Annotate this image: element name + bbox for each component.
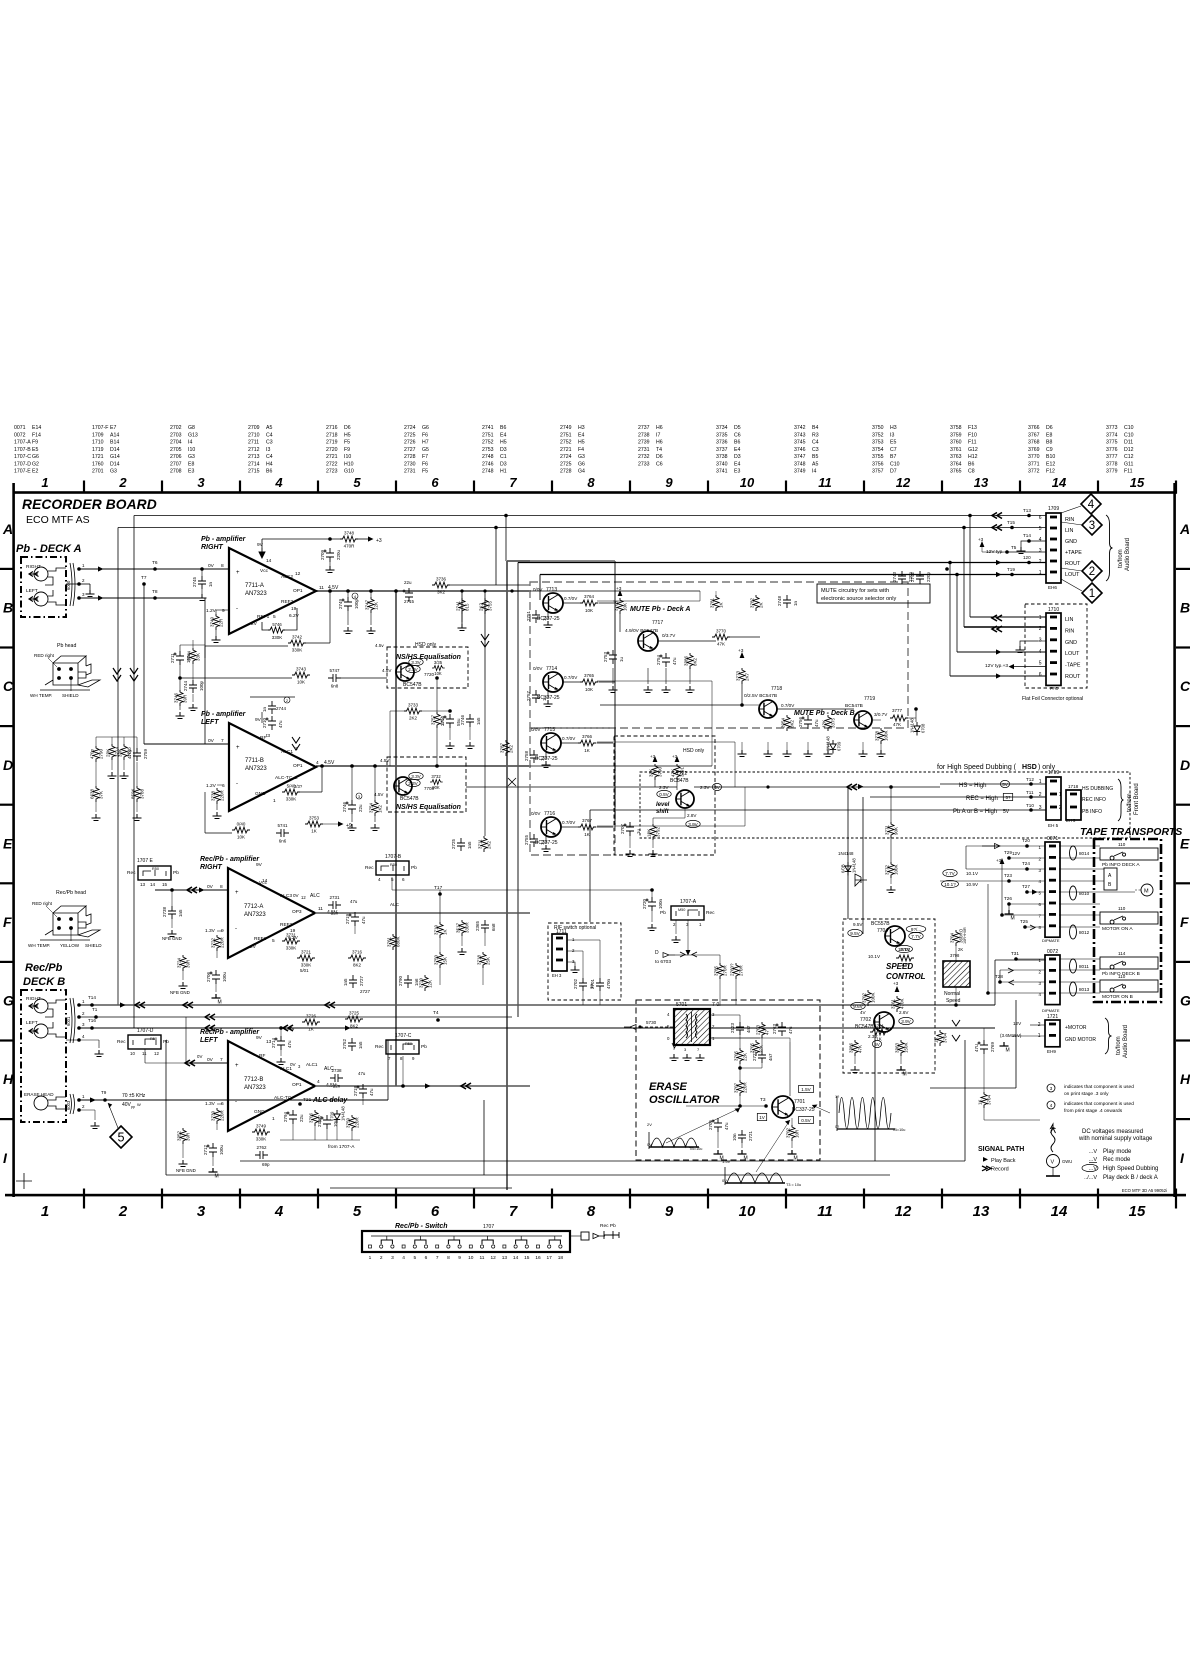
svg-text:10.1V: 10.1V [966, 871, 979, 876]
wire vertical record left [517, 563, 519, 1018]
svg-text:2.3V: 2.3V [408, 781, 418, 786]
svg-text:T20: T20 [1022, 838, 1030, 843]
record chevrons 1709 RIN [992, 513, 1002, 519]
wire [204, 818, 206, 833]
wire [739, 1015, 741, 1022]
wire 3743 row [180, 677, 292, 679]
svg-text:E: E [3, 835, 13, 851]
svg-text:Rec/Pb head: Rec/Pb head [56, 890, 86, 896]
svg-text:13: 13 [140, 882, 146, 887]
svg-text:14: 14 [1051, 1203, 1068, 1220]
wire pin2 down [89, 584, 91, 590]
svg-text:+3: +3 [996, 858, 1002, 863]
switch 1707-E contacts [143, 870, 166, 876]
wire to 0072 pin1 [995, 959, 1046, 961]
svg-text:1719: 1719 [92, 447, 104, 453]
svg-text:1707-A: 1707-A [680, 899, 697, 905]
svg-text:C: C [1180, 678, 1190, 694]
svg-text:3771: 3771 [885, 824, 890, 835]
resistor 3782 2K [753, 595, 759, 611]
svg-text:10.1V: 10.1V [868, 954, 881, 959]
svg-text:ALC2: ALC2 [281, 574, 293, 580]
svg-text:F4: F4 [578, 447, 584, 453]
svg-text:1707-C: 1707-C [14, 454, 31, 460]
capacitor 2769 47u [978, 1040, 989, 1054]
svg-text:3770: 3770 [1028, 454, 1040, 460]
svg-text:4: 4 [316, 760, 319, 766]
legend rec underline [1089, 1162, 1097, 1164]
deck B erase pin 2 [77, 1108, 81, 1112]
svg-text:3/0.7V: 3/0.7V [874, 712, 888, 717]
svg-text:F: F [3, 914, 12, 930]
resistor 2741 815 [459, 598, 465, 614]
chevron down pair [481, 634, 489, 647]
junction [279, 1026, 283, 1030]
connector 0072 pin 4 [1049, 992, 1056, 995]
wire [684, 808, 686, 818]
svg-text:Audio Board: Audio Board [1123, 1025, 1129, 1058]
wire 1710 gnd [1038, 640, 1046, 642]
wire 7713 collector [563, 602, 580, 604]
grid row tick right [1176, 646, 1190, 648]
svg-text:T26: T26 [1004, 896, 1012, 901]
grid tick top [551, 481, 553, 494]
svg-text:2: 2 [1059, 805, 1062, 811]
svg-text:4: 4 [274, 1203, 284, 1220]
ground 2712 [209, 1168, 218, 1172]
svg-text:1K: 1K [311, 829, 317, 834]
resistor 3363 150K [898, 1040, 904, 1056]
frame bottom rule [5, 1194, 1186, 1197]
svg-text:12: 12 [895, 1203, 912, 1220]
NS/HS equalisation enclosure 2 [387, 757, 466, 812]
svg-text:3735: 3735 [716, 432, 728, 438]
resistor 3770 47K [712, 634, 730, 640]
svg-text:ALC1: ALC1 [281, 749, 293, 755]
svg-text:F7: F7 [422, 454, 428, 460]
resistor 3736 [432, 582, 450, 588]
svg-text:H: H [3, 1071, 14, 1087]
svg-text:0.7/0V: 0.7/0V [781, 703, 795, 708]
wire 1711 p1 [567, 939, 600, 941]
switch symbol MOTOR ON A [1110, 916, 1126, 924]
transistor 7702 BC547B [874, 1012, 894, 1032]
grid row tick right [1176, 882, 1190, 884]
svg-text:47K: 47K [858, 1045, 863, 1053]
wire [95, 802, 97, 812]
svg-text:2721: 2721 [326, 454, 338, 460]
svg-text:6: 6 [1039, 515, 1042, 521]
svg-text:3705: 3705 [734, 1050, 739, 1061]
ground mute A [609, 686, 618, 693]
wire [676, 780, 678, 790]
wire to NSHS box [341, 677, 387, 679]
svg-text:9: 9 [458, 1255, 461, 1261]
A/B selector box [1104, 868, 1117, 890]
capacitor 2709 220u [324, 548, 335, 562]
svg-text:3741: 3741 [716, 469, 728, 475]
resistor 3725 8K2 [345, 1016, 363, 1022]
resistor 3767 1K [578, 824, 596, 830]
svg-text:2719: 2719 [345, 913, 350, 924]
svg-text:10.1?: 10.1? [944, 882, 956, 887]
svg-text:114: 114 [1118, 951, 1126, 956]
svg-text:C6: C6 [656, 461, 663, 467]
svg-text:11: 11 [480, 1255, 485, 1261]
svg-text:2702: 2702 [170, 425, 182, 431]
svg-text:V: V [1051, 1160, 1055, 1166]
wire [95, 762, 97, 786]
svg-text:A: A [1179, 521, 1190, 537]
switch symbol MOTOR ON B [1110, 984, 1126, 992]
wire level shift out [694, 786, 940, 788]
svg-text:1n5: 1n5 [476, 717, 481, 725]
op-amp 7711-A Pb amplifier right [229, 548, 316, 634]
svg-text:GND MOTOR: GND MOTOR [1065, 1037, 1096, 1043]
+3 arrow mute A [618, 590, 623, 596]
wire 0072 to transport [1059, 958, 1100, 960]
connector 1710 pin 1 [1050, 616, 1057, 619]
svg-text:1: 1 [1039, 779, 1042, 785]
svg-text:1N4148: 1N4148 [852, 858, 857, 873]
wire T13 line [134, 515, 1046, 517]
svg-text:11: 11 [818, 475, 832, 490]
svg-text:2703: 2703 [170, 432, 182, 438]
voltage [942, 880, 959, 887]
ground 3754 [371, 824, 380, 831]
deck A connector oval [70, 563, 75, 606]
wire 0071 to transport [1059, 868, 1104, 870]
wire [599, 940, 601, 978]
svg-text:Front Board: Front Board [1134, 783, 1140, 815]
svg-text:T3 = 10u: T3 = 10u [786, 1183, 801, 1187]
svg-text:H3: H3 [578, 425, 585, 431]
switch 1707 contact 18 [559, 1245, 562, 1248]
svg-text:8K2: 8K2 [353, 963, 362, 968]
wire 1710 RIN [964, 626, 1046, 628]
resistor 3788 8K9 [134, 786, 140, 802]
wire 1707-A wiper [687, 920, 689, 955]
svg-text:1u: 1u [542, 695, 547, 701]
svg-text:18K: 18K [647, 829, 652, 837]
resistor 3703 47 [759, 1022, 765, 1038]
resistor 3771 90K [888, 822, 894, 838]
capacitor 2744b 100p [189, 680, 197, 693]
svg-text:E3: E3 [734, 469, 740, 475]
wire recpb left output [315, 1085, 530, 1087]
svg-text:Pb head: Pb head [57, 643, 76, 649]
wire [629, 836, 631, 848]
svg-text:H4: H4 [266, 461, 273, 467]
node [310, 675, 328, 678]
wire HS=High [940, 783, 1031, 785]
svg-text:Rec: Rec [127, 870, 136, 876]
deck A right head arrows [29, 572, 39, 577]
resistor 3787 2K2 [503, 740, 509, 756]
svg-text:G8: G8 [188, 425, 195, 431]
svg-text:1u: 1u [542, 615, 547, 621]
connector 1710 pin 6 [1050, 673, 1057, 676]
ground 2738 [168, 930, 177, 937]
wire base feed mute B [600, 704, 742, 706]
svg-text:2757: 2757 [526, 690, 531, 701]
svg-text:47u: 47u [369, 1088, 374, 1096]
svg-text:2746: 2746 [482, 461, 494, 467]
wire T7 vertical [143, 584, 145, 744]
svg-text:F11: F11 [968, 440, 977, 446]
svg-text:EH 5: EH 5 [1048, 823, 1059, 828]
svg-text:1718: 1718 [1068, 784, 1079, 789]
wire inner box right [1015, 1000, 1017, 1088]
node [419, 718, 437, 728]
svg-text:2123: 2123 [730, 1022, 735, 1033]
junction [373, 764, 377, 768]
junction T14b [90, 1003, 94, 1007]
svg-text:GND: GND [255, 791, 266, 797]
transistor 7715 BC337-25 [541, 733, 561, 753]
resistor 3704c 1K [981, 1092, 987, 1108]
resistor 3773 2K7 [739, 668, 745, 684]
capacitor 5741 6n6 [276, 829, 289, 837]
boxed voltage [757, 1113, 766, 1120]
svg-text:EH6: EH6 [1048, 585, 1057, 590]
transistor 7713 BC337-25 [543, 593, 563, 613]
svg-text:-TAPE: -TAPE [1065, 663, 1081, 669]
wire REC=High [870, 796, 1046, 798]
svg-text:3702: 3702 [862, 992, 867, 1003]
svg-text:4: 4 [1039, 649, 1042, 655]
svg-text:3758: 3758 [950, 425, 962, 431]
svg-text:T5: T5 [1011, 545, 1017, 550]
svg-text:5747: 5747 [329, 668, 340, 673]
leader diamond 5 [108, 1103, 118, 1128]
ground 1711 [571, 966, 580, 973]
grid tick bottom [395, 1189, 397, 1209]
svg-text:110: 110 [1118, 906, 1126, 911]
capacitor 2718 47u [357, 1084, 368, 1098]
+3 arrow 3790 [653, 756, 658, 762]
ground 2741 [458, 624, 467, 631]
svg-text:6/0B: 6/0B [841, 864, 846, 873]
switch 1707-B contacts [381, 865, 404, 871]
svg-text:G5: G5 [422, 447, 429, 453]
legend gnd bar [1046, 1175, 1060, 1177]
svg-text:2731: 2731 [329, 895, 340, 900]
svg-text:SIGNAL PATH: SIGNAL PATH [978, 1146, 1024, 1153]
svg-text:4: 4 [1039, 537, 1042, 543]
wire 12V to +TAPE [982, 551, 1007, 553]
svg-text:3704: 3704 [950, 932, 955, 943]
svg-text:F6: F6 [422, 461, 428, 467]
svg-text:9: 9 [222, 608, 225, 614]
junction T26 [1007, 902, 1011, 906]
svg-text:G3: G3 [578, 454, 585, 460]
wire [94, 1110, 96, 1120]
svg-text:7704: 7704 [877, 928, 888, 934]
skip [639, 772, 641, 838]
ferrite bead 8011 [1070, 959, 1077, 973]
junction dot [328, 589, 331, 592]
connector 1711 [552, 934, 567, 971]
svg-text:3725: 3725 [349, 1011, 360, 1016]
wire [329, 591, 331, 643]
junction [954, 1003, 958, 1007]
svg-text:100K: 100K [894, 864, 899, 875]
resistor 3743 [292, 672, 310, 678]
legend V circle [1047, 1155, 1060, 1168]
wire [292, 1124, 294, 1140]
svg-text:1707-C: 1707-C [395, 1033, 412, 1039]
gnd stub 1711 [567, 962, 575, 966]
ground 1721 [1000, 1042, 1009, 1046]
grid tick top [707, 481, 709, 494]
svg-text:0V: 0V [208, 563, 215, 569]
svg-text:3: 3 [1089, 520, 1095, 532]
wire gnd drop [689, 668, 691, 684]
grid tick top [1019, 481, 1021, 494]
switch 1707 contact 17 [548, 1245, 551, 1248]
wire PbAorB=High [590, 809, 1046, 811]
junction [328, 589, 332, 593]
svg-text:1: 1 [1039, 570, 1042, 576]
junction dot [766, 785, 769, 788]
svg-text:33K: 33K [196, 653, 201, 661]
svg-text:0.7/0V: 0.7/0V [564, 675, 578, 680]
svg-text:100u: 100u [219, 1144, 224, 1155]
svg-text:B5: B5 [812, 454, 818, 460]
svg-text:ERASE HEAD: ERASE HEAD [24, 1092, 54, 1097]
resistor 3777 47K h [890, 715, 908, 721]
svg-text:3779: 3779 [1106, 469, 1118, 475]
svg-text:6n8: 6n8 [331, 684, 339, 689]
svg-text:69p: 69p [262, 1162, 270, 1167]
svg-text:A: A [2, 521, 13, 537]
svg-text:2K2: 2K2 [509, 744, 514, 753]
wire [192, 694, 194, 702]
svg-text:ERASE: ERASE [649, 1081, 688, 1093]
resistor 3748 [340, 536, 358, 542]
wire to +3 [358, 538, 372, 540]
ground 3772 [887, 886, 896, 893]
svg-text:shift: shift [656, 809, 670, 815]
svg-text:T13: T13 [1023, 508, 1031, 513]
svg-text:C10: C10 [1124, 425, 1134, 431]
svg-text:8: 8 [587, 1203, 596, 1220]
ground cluster left 2 [133, 814, 142, 821]
resistor 3701 1K [870, 1029, 888, 1035]
chevron down marks [113, 668, 138, 681]
svg-text:M: M [215, 1174, 219, 1180]
svg-text:D3: D3 [500, 447, 507, 453]
svg-text:7712-A: 7712-A [244, 904, 263, 910]
svg-text:47K: 47K [671, 769, 676, 777]
svg-text:3778: 3778 [875, 730, 880, 741]
svg-text:6.2V: 6.2V [289, 613, 300, 619]
svg-text:NS/HS Equalisation: NS/HS Equalisation [396, 804, 461, 811]
svg-text:2746: 2746 [460, 714, 465, 725]
junction dot [320, 764, 323, 767]
svg-text:1.5V: 1.5V [801, 1087, 811, 1092]
svg-text:3750: 3750 [434, 954, 439, 965]
svg-text:3766: 3766 [1028, 425, 1040, 431]
svg-text:220p: 220p [926, 571, 931, 582]
arrow left tape [1009, 664, 1015, 669]
grid tick top [83, 481, 85, 494]
svg-text:18: 18 [558, 1255, 564, 1261]
switch drive square [581, 1232, 589, 1240]
svg-text:2732: 2732 [638, 454, 650, 460]
junction T29 [1007, 856, 1011, 860]
svg-text:2751: 2751 [526, 610, 531, 621]
svg-text:8: 8 [587, 475, 595, 490]
svg-text:+3: +3 [893, 981, 899, 986]
svg-text:LOUT: LOUT [1065, 651, 1080, 657]
resistor 3792 18K [650, 824, 656, 840]
wire 3740 row [205, 832, 232, 834]
svg-text:OP3: OP3 [292, 909, 302, 915]
arrow down pair speed [952, 1020, 960, 1041]
connector 1719 pin 3 [1050, 806, 1057, 809]
arrow left erase [90, 1097, 96, 1102]
leader diamond3 [1061, 522, 1082, 525]
wire to deck B mute [730, 636, 760, 638]
svg-text:Rec/Pb - amplifier: Rec/Pb - amplifier [200, 856, 260, 863]
svg-text:3753: 3753 [309, 816, 320, 821]
diode 6709 1N4148 [830, 740, 836, 754]
svg-text:E5: E5 [890, 440, 896, 446]
svg-text:M: M [1006, 1048, 1010, 1054]
connector 1710 pin 5 [1050, 661, 1057, 664]
wire T17 down [439, 894, 441, 922]
node [228, 792, 230, 818]
svg-text:3747: 3747 [794, 454, 806, 460]
junction T13 [1027, 514, 1031, 518]
connector 0071 pin 8 [1049, 924, 1056, 927]
svg-text:T25: T25 [1020, 919, 1028, 924]
ground 3738 [213, 812, 222, 819]
wire [740, 1067, 762, 1069]
svg-text:YELLOW: YELLOW [60, 943, 80, 948]
svg-text:15: 15 [1129, 1203, 1146, 1220]
svg-text:3517: 3517 [456, 922, 461, 933]
ground 3747 [367, 627, 376, 634]
svg-text:4.5V: 4.5V [324, 760, 335, 766]
wire [717, 1132, 719, 1148]
svg-text:D6: D6 [656, 454, 663, 460]
junction T12 [1029, 782, 1033, 786]
svg-text:Pb - DECK A: Pb - DECK A [16, 543, 82, 555]
play arrow LOUT [996, 572, 1002, 577]
resistor 3766 1K [578, 740, 596, 746]
svg-text:6: 6 [402, 877, 405, 882]
svg-text:Rec: Rec [706, 910, 715, 916]
capacitor 2758 1u [530, 750, 538, 763]
wire [354, 926, 356, 934]
wire [715, 591, 717, 595]
skip [615, 600, 660, 602]
mute enclosure lower [530, 728, 615, 855]
svg-text:RED right: RED right [32, 901, 53, 906]
junction [435, 764, 439, 768]
connector 0072 pin 2 [1049, 969, 1056, 972]
svg-text:0V: 0V [647, 1142, 652, 1147]
recpb lever symbol [604, 1231, 619, 1239]
svg-text:from print stage .4 onwards: from print stage .4 onwards [1064, 1108, 1123, 1114]
ground 2749 [344, 627, 353, 634]
switch Pb INFO DECK B [1100, 957, 1158, 969]
skip [228, 1136, 230, 1161]
voltage [409, 772, 423, 779]
